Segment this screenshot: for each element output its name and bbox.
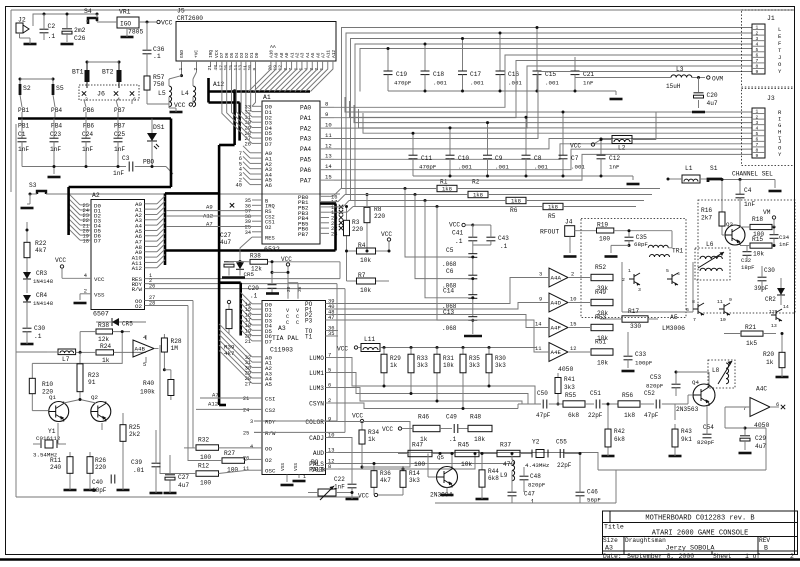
svg-text:R30: R30: [495, 355, 506, 362]
transistor TR1 left: [633, 274, 635, 284]
wire Q1 emitter down: [57, 423, 59, 444]
svg-text:1: 1: [303, 474, 306, 480]
svg-text:2: 2: [85, 97, 88, 103]
svg-text:C55: C55: [556, 439, 567, 446]
wire A7 A12 CS lines: [200, 397, 230, 399]
wire 6532 RES to strip: [240, 237, 252, 255]
wire OSC routing: [160, 345, 184, 474]
svg-text:3k3: 3k3: [409, 477, 420, 484]
svg-text:C43: C43: [498, 235, 509, 242]
svg-text:RFOUT: RFOUT: [540, 229, 559, 236]
svg-text:L1: L1: [685, 165, 693, 172]
resistor R25 2k2: [122, 420, 124, 425]
wire J5 gnd pins: [181, 61, 183, 76]
svg-text:220: 220: [352, 226, 363, 233]
svg-text:VSS: VSS: [280, 463, 286, 471]
svg-text:Sheet: Sheet: [713, 553, 732, 560]
capacitor C17 .001: [462, 39, 464, 72]
transistor TR1 right: [671, 274, 673, 284]
svg-text:R21: R21: [745, 324, 756, 331]
svg-text:10k: 10k: [461, 461, 472, 468]
svg-text:R56: R56: [622, 392, 633, 399]
svg-text:PA0: PA0: [300, 105, 311, 112]
wire J5 A fan: [248, 67, 271, 92]
wire thick A bus horizontal: [209, 90, 311, 93]
capacitor C30 .1: [23, 327, 32, 329]
svg-text:R3: R3: [352, 219, 360, 226]
svg-text:C34: C34: [779, 234, 790, 241]
resistor R41 3k3: [557, 373, 559, 378]
wire J6 pins down: [84, 100, 86, 107]
title block: [603, 511, 798, 555]
svg-text:R38: R38: [250, 253, 261, 260]
svg-text:15uH: 15uH: [666, 83, 681, 90]
svg-text:C36: C36: [153, 46, 165, 53]
svg-text:A5: A5: [265, 381, 272, 388]
svg-text:1nF: 1nF: [50, 146, 61, 153]
svg-text:R49: R49: [595, 289, 606, 296]
capacitor C18 .001: [424, 44, 426, 71]
svg-text:Date:: Date:: [603, 553, 622, 560]
resistor R23 91: [79, 356, 81, 364]
resistor R29 1k: [383, 349, 385, 354]
wire thick D bus horizontal: [209, 101, 240, 104]
svg-text:REV: REV: [759, 537, 770, 544]
svg-text:VCC: VCC: [55, 257, 66, 264]
capacitor C19 470pF: [387, 49, 389, 72]
wire cap row2 rail: [413, 175, 633, 177]
wire thick TIA D branch: [219, 281, 241, 284]
wire R36 R14 bottoms: [373, 492, 375, 495]
svg-text:.068: .068: [442, 261, 457, 268]
svg-text:VCC: VCC: [358, 493, 369, 500]
svg-text:L4: L4: [181, 90, 189, 97]
wire J5 D fan: [222, 67, 252, 144]
svg-text:R24: R24: [100, 343, 111, 350]
capacitor C11 470pF: [412, 133, 414, 155]
svg-text:A8: A8: [279, 52, 285, 58]
resistor R39 4k7: [228, 304, 230, 309]
svg-text:2: 2: [571, 272, 574, 278]
op-amp A4D: [549, 293, 568, 312]
resistor R31 10k: [436, 349, 438, 354]
svg-text:9k1: 9k1: [681, 436, 692, 443]
svg-text:R37: R37: [500, 442, 511, 449]
svg-text:A9: A9: [206, 204, 213, 211]
battery BT2: [118, 62, 120, 70]
switch S5: [52, 84, 55, 95]
connector J3 dotted outline: [742, 89, 795, 166]
wire A4C input rail: [765, 428, 767, 470]
wire Q4 links: [687, 395, 689, 404]
svg-text:1k: 1k: [766, 359, 774, 366]
svg-text:C48: C48: [530, 473, 541, 480]
svg-text:R14: R14: [409, 470, 420, 477]
svg-text:.1: .1: [250, 293, 258, 300]
svg-text:4k7: 4k7: [380, 477, 391, 484]
svg-text:R53: R53: [595, 314, 606, 321]
svg-text:A3: A3: [605, 545, 613, 552]
svg-text:C41: C41: [452, 230, 463, 237]
svg-text:.068: .068: [442, 325, 457, 332]
svg-text:VSS: VSS: [293, 463, 299, 471]
svg-text:C27: C27: [220, 232, 231, 239]
svg-text:100: 100: [200, 454, 211, 461]
IC A2 6507: [91, 200, 145, 310]
svg-text:470: 470: [503, 461, 514, 468]
wire thick PB bus: [18, 117, 171, 120]
svg-text:R52: R52: [595, 264, 606, 271]
svg-text:PA7: PA7: [300, 177, 311, 184]
svg-text:26: 26: [243, 455, 249, 461]
svg-text:1nF: 1nF: [744, 201, 755, 208]
wire S3 to reset net: [46, 193, 340, 195]
wire cap row1 rail: [388, 90, 616, 92]
svg-text:CR3: CR3: [36, 270, 47, 277]
svg-text:VCC: VCC: [352, 413, 363, 420]
svg-text:VCC: VCC: [94, 276, 105, 283]
wire PALI line: [338, 454, 475, 470]
resistor R8 220: [366, 203, 368, 207]
ground cap bank: [464, 335, 482, 338]
svg-text:500k: 500k: [311, 467, 326, 474]
resistor R33 3k3: [410, 349, 412, 354]
svg-text:.1: .1: [449, 436, 457, 443]
resistor R6 1k8: [506, 197, 526, 203]
svg-text:PA3: PA3: [300, 136, 311, 143]
svg-text:1M: 1M: [171, 345, 179, 352]
svg-text:2: 2: [790, 553, 794, 560]
ground Q5: [446, 488, 448, 493]
svg-text:C29: C29: [755, 435, 766, 442]
svg-text:15: 15: [570, 322, 576, 328]
svg-text:C32: C32: [741, 257, 751, 264]
svg-text:DS1: DS1: [153, 124, 165, 131]
svg-text:1k8: 1k8: [442, 186, 452, 193]
svg-text:2: 2: [622, 277, 625, 283]
svg-text:9: 9: [325, 111, 328, 118]
svg-text:100k: 100k: [140, 389, 155, 396]
svg-text:R41: R41: [564, 376, 575, 383]
svg-text:7805: 7805: [128, 29, 144, 36]
svg-text:10k: 10k: [360, 257, 371, 264]
svg-text:Title: Title: [604, 524, 624, 531]
svg-text:9: 9: [756, 153, 759, 159]
svg-text:L8: L8: [712, 367, 720, 374]
wire P pins to 4050: [338, 278, 549, 304]
svg-text:A10: A10: [269, 50, 275, 58]
svg-text:.001: .001: [571, 164, 585, 171]
switch S4: [88, 18, 97, 24]
svg-text:RES: RES: [265, 236, 275, 242]
svg-text:C40: C40: [92, 479, 103, 486]
svg-text:C53: C53: [650, 374, 661, 381]
svg-text:27: 27: [245, 381, 251, 387]
resistor R3 220: [346, 216, 348, 220]
svg-text:PA1: PA1: [300, 115, 311, 122]
svg-text:C10: C10: [458, 155, 469, 162]
transistor A5-12-13-14: [775, 310, 777, 320]
svg-text:220: 220: [95, 464, 106, 471]
svg-text:J2: J2: [18, 17, 26, 24]
svg-text:R18: R18: [752, 216, 763, 223]
svg-text:MOTHERBOARD C012283 rev. B: MOTHERBOARD C012283 rev. B: [645, 515, 754, 523]
svg-text:R51: R51: [595, 339, 606, 346]
svg-text:10k: 10k: [360, 287, 371, 294]
svg-text:C25: C25: [114, 131, 125, 138]
wire battery rail: [87, 61, 119, 63]
svg-text:C35: C35: [636, 234, 647, 241]
wire PALS line: [338, 463, 512, 465]
svg-text:A4F: A4F: [551, 325, 562, 332]
svg-text:TR1: TR1: [672, 248, 683, 255]
svg-text:.1: .1: [455, 238, 463, 245]
svg-text:PB6: PB6: [83, 107, 94, 114]
svg-text:Q3: Q3: [726, 221, 733, 228]
svg-text:R6: R6: [510, 207, 518, 214]
svg-text:4: 4: [84, 273, 87, 279]
svg-text:6k8: 6k8: [614, 436, 625, 443]
svg-text:20: 20: [286, 286, 292, 292]
svg-text:R2: R2: [472, 179, 480, 186]
svg-text:A6: A6: [315, 52, 321, 58]
wire PB0 diagonal: [166, 167, 173, 175]
svg-text:39pF: 39pF: [754, 285, 769, 292]
svg-text:C9: C9: [495, 155, 503, 162]
op-amp A4A: [549, 268, 568, 287]
svg-text:6532: 6532: [264, 246, 280, 253]
capacitor C25 1nF: [117, 119, 119, 139]
capacitor C8 .001: [525, 117, 527, 155]
J5 pin stubs: [181, 61, 183, 67]
transistor Q1: [49, 402, 69, 422]
wire paddle row to J1: [457, 188, 660, 190]
svg-text:14: 14: [535, 322, 541, 328]
svg-text:Size: Size: [603, 537, 618, 544]
svg-text:R40: R40: [143, 380, 154, 387]
wire A9 line: [166, 210, 252, 212]
svg-text:21: 21: [245, 339, 251, 345]
svg-text:C30: C30: [764, 267, 775, 274]
svg-text:C4: C4: [744, 187, 752, 194]
svg-text:A0: A0: [284, 52, 290, 58]
svg-text:PB7: PB7: [114, 107, 125, 114]
inductor L5: [169, 86, 172, 107]
svg-text:Y2: Y2: [532, 439, 540, 446]
svg-text:R45: R45: [458, 442, 469, 449]
svg-text:2N3563: 2N3563: [676, 406, 699, 413]
svg-text:12k: 12k: [251, 266, 262, 273]
capacitor C24 1nF: [85, 119, 87, 139]
op-amp A4F: [549, 318, 568, 337]
svg-text:+VC: +VC: [194, 50, 200, 58]
svg-text:6: 6: [686, 307, 689, 313]
svg-text:11: 11: [325, 132, 332, 139]
svg-text:.1: .1: [48, 33, 56, 40]
svg-text:PA4: PA4: [300, 146, 311, 153]
wire R3 R4 R7 vertical: [346, 240, 348, 281]
svg-text:CR2: CR2: [765, 296, 776, 303]
svg-text:R/W: R/W: [265, 430, 276, 437]
svg-text:A1: A1: [289, 52, 295, 58]
wire PA4-PA7 to J3: [334, 139, 752, 149]
svg-text:C20: C20: [248, 285, 259, 292]
wire switch rail: [20, 78, 53, 80]
svg-text:C46: C46: [587, 489, 598, 496]
wire video mix joins: [517, 404, 519, 409]
svg-text:3k3: 3k3: [564, 384, 575, 391]
diode CR4 1N4148: [23, 295, 31, 302]
resistor R4 10k: [352, 250, 356, 252]
resistor R57 750: [146, 72, 148, 76]
svg-text:PBO: PBO: [143, 159, 154, 166]
wire AUD line: [338, 453, 598, 471]
wire thick bottom horizontal: [165, 249, 336, 252]
svg-text:R29: R29: [390, 355, 401, 362]
svg-text:1k8: 1k8: [548, 204, 558, 211]
svg-text:J: J: [778, 54, 781, 61]
svg-text:R46: R46: [418, 414, 429, 421]
svg-text:R26: R26: [95, 457, 106, 464]
resistor R28 1M: [163, 334, 165, 338]
svg-text:GND: GND: [179, 50, 185, 58]
svg-text:4: 4: [117, 97, 120, 103]
svg-text:A4E: A4E: [551, 349, 562, 356]
svg-text:J4: J4: [565, 219, 573, 226]
resistor R26 220: [89, 452, 91, 457]
dotted box oscillator area: [698, 200, 795, 313]
svg-text:Jerzy SOBOLA: Jerzy SOBOLA: [666, 545, 716, 553]
wire bottom rail2: [435, 502, 616, 504]
svg-text:A6: A6: [265, 182, 272, 189]
svg-text:.001: .001: [433, 79, 447, 86]
svg-text:R44: R44: [488, 468, 499, 475]
svg-text:48: 48: [213, 65, 219, 71]
resistor R5 1k8: [543, 203, 563, 209]
resistor R44 6k8: [481, 465, 483, 470]
svg-text:10: 10: [328, 432, 334, 438]
svg-text:4u7: 4u7: [220, 239, 231, 246]
svg-text:24: 24: [243, 407, 249, 413]
svg-text:34: 34: [245, 230, 251, 236]
wire RDY vertical: [336, 284, 338, 421]
svg-text:3: 3: [539, 272, 542, 278]
svg-text:R15: R15: [752, 236, 763, 243]
svg-text:4u7: 4u7: [755, 443, 766, 450]
svg-text:F: F: [778, 40, 781, 47]
svg-text:PB1: PB1: [18, 123, 29, 130]
svg-text:68pF: 68pF: [634, 241, 648, 248]
svg-text:PB4: PB4: [51, 123, 62, 130]
svg-text:8: 8: [692, 299, 695, 305]
svg-text:C49: C49: [446, 414, 457, 421]
svg-text:3k3: 3k3: [469, 362, 480, 369]
svg-text:PB6: PB6: [83, 123, 94, 130]
wire osc loop: [32, 332, 122, 364]
svg-text:C30: C30: [34, 325, 45, 332]
resistor R42 6k8: [607, 424, 609, 429]
svg-text:L2: L2: [618, 145, 626, 152]
svg-text:C7: C7: [571, 155, 579, 162]
svg-text:470pF: 470pF: [394, 79, 412, 86]
svg-text:S2: S2: [23, 85, 31, 92]
wire PA0-PA3 to J1: [334, 55, 752, 107]
svg-text:A4: A4: [305, 52, 311, 58]
svg-text:PA5: PA5: [300, 157, 311, 164]
capacitor C27b 4u7: [165, 474, 175, 476]
wire LUM3 line: [338, 388, 522, 405]
svg-text:A5: A5: [670, 314, 678, 321]
svg-text:5: 5: [666, 268, 669, 274]
svg-text:B: B: [764, 545, 768, 552]
svg-text:C54: C54: [703, 424, 714, 431]
svg-text:100: 100: [414, 461, 425, 468]
wire LUM0 line: [338, 358, 535, 405]
wire top bus nested: [342, 28, 753, 189]
inductor L7: [58, 349, 76, 355]
svg-text:R36: R36: [380, 470, 391, 477]
svg-text:1: 1: [178, 68, 184, 71]
wire A4B out: [154, 348, 159, 350]
voltage regulator VR1 7805: [117, 17, 139, 28]
svg-text:100: 100: [599, 236, 610, 243]
svg-text:R5: R5: [548, 213, 556, 220]
svg-text:1nF: 1nF: [609, 164, 620, 171]
svg-text:12: 12: [769, 309, 775, 315]
svg-text:D7: D7: [265, 339, 272, 346]
capacitor C9 .001: [487, 123, 489, 156]
svg-text:4u7: 4u7: [178, 482, 189, 489]
svg-text:IRQ: IRQ: [208, 50, 214, 58]
svg-text:J5: J5: [177, 8, 185, 15]
svg-text:10: 10: [570, 297, 576, 303]
svg-text:1nF: 1nF: [82, 146, 93, 153]
wire thick main vertical: [218, 145, 221, 405]
wire O0 routing: [192, 301, 194, 448]
svg-text:2: 2: [84, 289, 87, 295]
svg-text:4: 4: [677, 271, 680, 277]
svg-text:R33: R33: [417, 355, 428, 362]
svg-text:6k8: 6k8: [488, 475, 499, 482]
svg-text:C1: C1: [18, 131, 26, 138]
svg-text:R22: R22: [35, 240, 47, 247]
svg-text:C: C: [296, 320, 299, 326]
capacitor C2 .1: [40, 28, 49, 30]
svg-text:VCC: VCC: [337, 346, 348, 353]
svg-text:A4D: A4D: [551, 300, 562, 307]
svg-text:D7: D7: [94, 238, 101, 245]
svg-text:VCC: VCC: [382, 426, 393, 433]
svg-text:9: 9: [252, 68, 258, 71]
svg-text:R10: R10: [42, 381, 53, 388]
IC A3 TIA C11903: [262, 301, 326, 475]
svg-text:2k7: 2k7: [701, 215, 712, 222]
svg-text:A3: A3: [300, 52, 306, 58]
svg-text:PA6: PA6: [300, 167, 311, 174]
svg-text:LUM1: LUM1: [309, 370, 324, 377]
VCC R34: [360, 419, 363, 422]
transistor Q2: [91, 402, 111, 422]
svg-text:.001: .001: [534, 164, 548, 171]
capacitor C16 .001: [499, 33, 501, 71]
svg-text:2: 2: [193, 68, 199, 71]
svg-text:4050: 4050: [558, 366, 574, 373]
svg-text:OSC: OSC: [265, 468, 276, 475]
capacitor C7 .001: [562, 112, 564, 155]
svg-text:Q2: Q2: [91, 394, 98, 401]
svg-text:2: 2: [328, 398, 331, 404]
svg-text:L6: L6: [706, 241, 714, 248]
